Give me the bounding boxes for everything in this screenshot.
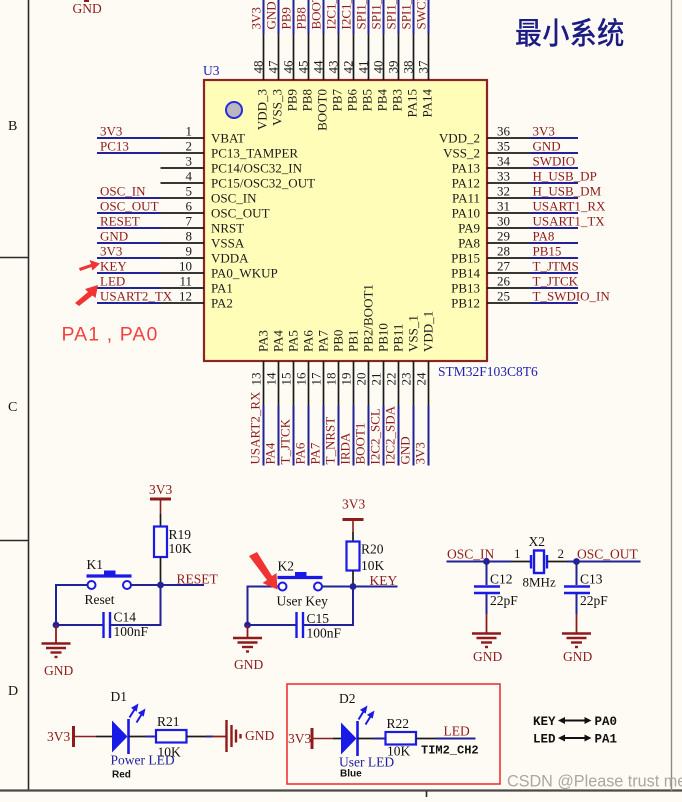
net GND (D1) bbox=[245, 728, 274, 743]
zone letter C bbox=[8, 400, 17, 415]
net GND (C12) bbox=[473, 649, 502, 664]
svg-text:22pF: 22pF bbox=[490, 593, 518, 608]
net label PB8 bbox=[294, 7, 309, 29]
pin 37 (PA14) bbox=[416, 34, 435, 117]
net label I2C1_SCL bbox=[324, 0, 339, 30]
sheet border left bbox=[28, 0, 30, 791]
net label SPI1_MISO bbox=[384, 0, 399, 30]
svg-text:18: 18 bbox=[324, 373, 339, 386]
svg-text:42: 42 bbox=[341, 61, 356, 74]
svg-text:VDD_1: VDD_1 bbox=[421, 311, 436, 352]
svg-text:H_USB_DM: H_USB_DM bbox=[533, 184, 602, 199]
pin 17 (PA7) bbox=[309, 330, 331, 406]
pin 11 (PA1) bbox=[161, 274, 233, 296]
svg-text:PA6: PA6 bbox=[293, 442, 308, 464]
svg-text:PA1: PA1 bbox=[211, 281, 233, 296]
pin 21 (PB10) bbox=[369, 323, 391, 405]
net GND (K1) bbox=[44, 663, 73, 678]
pin 4 (PC15/OSC32_OUT) bbox=[161, 169, 316, 191]
svg-text:VDDA: VDDA bbox=[211, 251, 249, 266]
net label RESET bbox=[177, 572, 219, 587]
wire OSC_OUT to C13 bbox=[576, 562, 578, 586]
svg-text:PB8: PB8 bbox=[294, 7, 309, 29]
wire net T_SWDIO_IN pin 25 bbox=[531, 302, 579, 304]
svg-text:PB12: PB12 bbox=[451, 296, 480, 311]
IC U3 body bbox=[204, 80, 487, 361]
capacitor C13 bbox=[564, 572, 608, 609]
wire D1 to R21 bbox=[129, 736, 157, 738]
net label PA8 bbox=[533, 229, 555, 244]
zone tick B/C bbox=[0, 257, 28, 259]
svg-text:USART1_TX: USART1_TX bbox=[533, 214, 606, 229]
svg-text:LED: LED bbox=[444, 724, 470, 739]
svg-text:PB8: PB8 bbox=[300, 89, 315, 111]
svg-text:1: 1 bbox=[186, 124, 193, 139]
comment Red bbox=[112, 770, 131, 781]
pin 13 (PA3) bbox=[249, 330, 271, 405]
wire net I2C2_SDA pin 22 bbox=[398, 406, 400, 466]
svg-text:K2: K2 bbox=[278, 559, 295, 574]
pin 28 (PB15) bbox=[451, 244, 530, 266]
capacitor C12 bbox=[474, 572, 518, 609]
svg-text:43: 43 bbox=[326, 61, 341, 74]
svg-text:T_JTCK: T_JTCK bbox=[533, 274, 579, 289]
svg-text:U3: U3 bbox=[203, 63, 220, 78]
svg-text:OSC_OUT: OSC_OUT bbox=[211, 206, 270, 221]
svg-text:VSSA: VSSA bbox=[211, 236, 245, 251]
net label PB9 bbox=[279, 7, 294, 29]
svg-text:100nF: 100nF bbox=[307, 626, 342, 641]
wire OSC_OUT bbox=[567, 561, 641, 563]
net label LED bbox=[444, 724, 470, 739]
wire net SPI1_MISO pin 39 bbox=[398, 0, 400, 34]
wire net GND pin 8 bbox=[97, 242, 161, 244]
svg-text:14: 14 bbox=[264, 372, 279, 386]
svg-text:PA7: PA7 bbox=[316, 330, 331, 352]
wire net PA6 pin 16 bbox=[308, 406, 310, 466]
svg-text:PA7: PA7 bbox=[308, 442, 323, 464]
net label OSC_OUT bbox=[577, 547, 639, 562]
svg-text:PA8: PA8 bbox=[533, 229, 555, 244]
sheet border bottom bbox=[0, 789, 682, 791]
net label IRDA bbox=[338, 432, 353, 464]
svg-text:40: 40 bbox=[371, 61, 386, 74]
svg-text:USART2_TX: USART2_TX bbox=[100, 289, 173, 304]
svg-text:SWCLK: SWCLK bbox=[414, 0, 429, 30]
wire 3V3 to D2 bbox=[333, 738, 341, 740]
svg-text:41: 41 bbox=[356, 61, 371, 74]
pin 24 (VDD_1) bbox=[414, 311, 436, 406]
svg-text:GND: GND bbox=[473, 649, 502, 664]
svg-text:VSS_1: VSS_1 bbox=[406, 315, 421, 352]
net label USART1_RX bbox=[533, 199, 607, 214]
wire net RESET bbox=[161, 584, 205, 586]
net label 3V3 bbox=[100, 124, 122, 139]
svg-text:BOOT0: BOOT0 bbox=[315, 89, 330, 131]
svg-text:3V3: 3V3 bbox=[249, 7, 264, 29]
svg-text:PB15: PB15 bbox=[451, 251, 480, 266]
svg-text:IRDA: IRDA bbox=[338, 432, 353, 464]
svg-text:16: 16 bbox=[294, 372, 309, 386]
net label T_JTCK bbox=[533, 274, 579, 289]
svg-text:PB11: PB11 bbox=[391, 324, 406, 352]
svg-text:48: 48 bbox=[251, 61, 266, 74]
wire net BOOT1 pin 20 bbox=[368, 406, 370, 466]
pin 1 (VBAT) bbox=[161, 124, 246, 146]
svg-text:PA11: PA11 bbox=[452, 191, 480, 206]
svg-text:15: 15 bbox=[279, 373, 294, 386]
svg-text:C: C bbox=[8, 400, 17, 415]
svg-text:USART1_RX: USART1_RX bbox=[533, 199, 607, 214]
annotation text PA1 , PA0 bbox=[62, 324, 159, 346]
svg-text:PA13: PA13 bbox=[452, 161, 480, 176]
svg-text:BOOT0: BOOT0 bbox=[309, 0, 324, 30]
svg-text:25: 25 bbox=[497, 289, 510, 304]
resistor R20 bbox=[347, 542, 385, 574]
pin 15 (PA5) bbox=[279, 330, 301, 405]
pin 36 (VDD_2) bbox=[439, 124, 531, 146]
svg-text:R19: R19 bbox=[169, 527, 192, 542]
wire net I2C1_SDA pin 42 bbox=[353, 0, 355, 34]
wire net PB15 pin 28 bbox=[531, 257, 579, 259]
wire net LED pin 11 bbox=[97, 287, 161, 289]
net label BOOT0 bbox=[309, 0, 324, 30]
net label 3V3 bbox=[249, 7, 264, 29]
wire C12 to gnd bbox=[486, 594, 488, 614]
svg-text:PA12: PA12 bbox=[452, 176, 480, 191]
net label PA4 bbox=[263, 442, 278, 464]
svg-text:PA0_WKUP: PA0_WKUP bbox=[211, 266, 278, 281]
pin 5 (OSC_IN) bbox=[161, 184, 258, 206]
net label GND bbox=[264, 1, 279, 29]
svg-text:27: 27 bbox=[497, 259, 511, 274]
sheet border right bbox=[671, 0, 673, 791]
ground symbol C13 bbox=[562, 614, 591, 647]
svg-text:D2: D2 bbox=[339, 691, 356, 706]
wire net GND pin 47 bbox=[278, 0, 280, 34]
svg-text:PB9: PB9 bbox=[285, 89, 300, 111]
net label T_SWDIO_IN bbox=[533, 289, 611, 304]
net label LED bbox=[100, 274, 125, 289]
net label 3V3 bbox=[413, 442, 428, 464]
svg-text:KEY: KEY bbox=[533, 715, 556, 729]
ground symbol K1 bbox=[42, 625, 71, 657]
svg-text:I2C1_SCL: I2C1_SCL bbox=[324, 0, 339, 30]
power 3V3 (K2 pull-up) bbox=[342, 497, 365, 533]
svg-text:32: 32 bbox=[497, 184, 510, 199]
svg-text:PA4: PA4 bbox=[263, 442, 278, 464]
svg-text:34: 34 bbox=[497, 154, 511, 169]
power 3V3 (K1 pull-up) bbox=[149, 482, 172, 514]
svg-text:12: 12 bbox=[179, 289, 192, 304]
wire net KEY pin 10 bbox=[97, 272, 161, 274]
svg-text:OSC_OUT: OSC_OUT bbox=[577, 547, 639, 562]
ground symbol D1 bbox=[212, 720, 241, 752]
net label I2C1_SDA bbox=[339, 0, 354, 30]
svg-text:PC13_TAMPER: PC13_TAMPER bbox=[211, 146, 298, 161]
wire net PC13 pin 2 bbox=[97, 152, 161, 154]
pin 19 (PB1) bbox=[339, 330, 361, 406]
net label T_NRST bbox=[323, 417, 338, 465]
svg-text:D: D bbox=[8, 684, 18, 699]
svg-text:38: 38 bbox=[401, 61, 416, 74]
svg-text:Red: Red bbox=[112, 770, 131, 781]
pin 25 (PB12) bbox=[451, 289, 530, 311]
wire net T_JTCK pin 26 bbox=[531, 287, 579, 289]
net label KEY bbox=[370, 573, 398, 588]
svg-text:9: 9 bbox=[186, 244, 193, 259]
pin 45 (PB8) bbox=[296, 34, 315, 111]
svg-text:T_JTCK: T_JTCK bbox=[278, 418, 293, 464]
svg-text:8MHz: 8MHz bbox=[523, 575, 556, 590]
svg-text:13: 13 bbox=[249, 373, 264, 386]
svg-text:D1: D1 bbox=[111, 689, 128, 704]
wire net USART2_RX pin 13 bbox=[263, 406, 265, 466]
svg-text:GND: GND bbox=[100, 229, 128, 244]
junction node gnd K2 bbox=[244, 622, 251, 629]
svg-text:STM32F103C8T6: STM32F103C8T6 bbox=[438, 364, 538, 379]
net label GND bbox=[100, 229, 128, 244]
net label 3V3 bbox=[100, 244, 122, 259]
svg-text:OSC_IN: OSC_IN bbox=[100, 184, 146, 199]
ground symbol fragment (cut off at top) bbox=[84, 0, 89, 2]
svg-text:PA6: PA6 bbox=[301, 330, 316, 352]
svg-text:VSS_3: VSS_3 bbox=[270, 89, 285, 126]
svg-text:PA0: PA0 bbox=[595, 715, 618, 729]
svg-text:19: 19 bbox=[339, 373, 354, 386]
svg-text:35: 35 bbox=[497, 139, 510, 154]
svg-text:10K: 10K bbox=[169, 541, 193, 556]
U3 pin-1 dot bbox=[226, 102, 242, 118]
wire net T_JTMS pin 27 bbox=[531, 272, 579, 274]
junction node KEY bbox=[350, 583, 357, 590]
wire net SWDIO pin 34 bbox=[531, 167, 579, 169]
pin 12 (PA2) bbox=[161, 289, 233, 311]
svg-text:KEY: KEY bbox=[370, 573, 398, 588]
net label T_JTMS bbox=[533, 259, 579, 274]
wire net H_USB_DP pin 33 bbox=[531, 182, 579, 184]
pin 22 (PB11) bbox=[384, 324, 406, 406]
svg-text:PB5: PB5 bbox=[360, 89, 375, 111]
net GND (C13) bbox=[563, 649, 592, 664]
switch K2 bbox=[277, 559, 329, 609]
wire OSC_IN bbox=[447, 561, 512, 563]
junction node OSC_IN bbox=[483, 558, 490, 565]
pin 42 (PB6) bbox=[341, 34, 360, 111]
net GND (K2) bbox=[234, 657, 263, 672]
svg-text:I2C2_SDA: I2C2_SDA bbox=[383, 405, 398, 464]
pin 3 (PC14/OSC32_IN) bbox=[161, 154, 303, 176]
svg-text:NRST: NRST bbox=[211, 221, 244, 236]
svg-text:24: 24 bbox=[414, 372, 429, 386]
resistor R19 bbox=[154, 527, 192, 558]
crystal X2 bbox=[523, 534, 556, 590]
net label USART1_TX bbox=[533, 214, 606, 229]
svg-text:K1: K1 bbox=[87, 557, 104, 572]
svg-text:I2C2_SCL: I2C2_SCL bbox=[368, 408, 383, 464]
svg-text:37: 37 bbox=[416, 60, 431, 74]
svg-text:H_USB_DP: H_USB_DP bbox=[533, 169, 597, 184]
svg-text:PB14: PB14 bbox=[451, 266, 480, 281]
svg-text:47: 47 bbox=[266, 60, 281, 74]
pin 44 (BOOT0) bbox=[311, 34, 330, 131]
svg-text:VBAT: VBAT bbox=[211, 131, 245, 146]
svg-text:R22: R22 bbox=[387, 716, 410, 731]
svg-text:10K: 10K bbox=[158, 745, 182, 760]
svg-text:User Key: User Key bbox=[277, 594, 329, 609]
wire net KEY bbox=[353, 586, 398, 588]
wire K2 right to node KEY bbox=[322, 586, 353, 588]
svg-text:GND: GND bbox=[245, 728, 274, 743]
svg-text:17: 17 bbox=[309, 372, 324, 386]
net label T_JTCK bbox=[278, 418, 293, 464]
pin 35 (VSS_2) bbox=[443, 139, 530, 161]
svg-text:20: 20 bbox=[354, 373, 369, 386]
wire OSC_IN to C12 bbox=[486, 562, 488, 586]
svg-text:6: 6 bbox=[186, 199, 193, 214]
net label 3V3 bbox=[533, 124, 555, 139]
wire net PA7 pin 17 bbox=[323, 406, 325, 466]
svg-text:39: 39 bbox=[386, 61, 401, 74]
pin 23 (VSS_1) bbox=[399, 315, 421, 405]
svg-text:USART2_RX: USART2_RX bbox=[248, 391, 263, 465]
svg-text:21: 21 bbox=[369, 373, 384, 386]
pin 27 (PB14) bbox=[451, 259, 530, 281]
pin 2 (PC13_TAMPER) bbox=[161, 139, 299, 161]
wire net 3V3 pin 1 bbox=[97, 137, 161, 139]
power 3V3 (D1) bbox=[47, 726, 96, 747]
comment Blue bbox=[340, 769, 362, 780]
net label OSC_IN bbox=[100, 184, 146, 199]
net label H_USB_DM bbox=[533, 184, 602, 199]
net label GND bbox=[533, 139, 561, 154]
wire net 3V3 pin 9 bbox=[97, 257, 161, 259]
wire net BOOT0 pin 44 bbox=[323, 0, 325, 34]
svg-text:RESET: RESET bbox=[177, 572, 219, 587]
net label I2C2_SCL bbox=[368, 408, 383, 464]
wire net LED bbox=[416, 738, 476, 740]
wire net SPI1_SCK pin 40 bbox=[383, 0, 385, 34]
watermark bbox=[507, 773, 682, 791]
wire net OSC_IN pin 5 bbox=[97, 197, 161, 199]
svg-text:3V3: 3V3 bbox=[47, 729, 70, 744]
svg-text:PA3: PA3 bbox=[256, 330, 271, 352]
svg-text:10K: 10K bbox=[361, 558, 385, 573]
svg-text:3V3: 3V3 bbox=[149, 482, 172, 497]
pin 30 (PA9) bbox=[458, 214, 530, 236]
svg-text:VDD_3: VDD_3 bbox=[255, 89, 270, 130]
net label PC13 bbox=[100, 139, 129, 154]
svg-text:22pF: 22pF bbox=[580, 593, 608, 608]
wire net PA4 pin 14 bbox=[278, 406, 280, 466]
svg-text:31: 31 bbox=[497, 199, 510, 214]
comment STM32F103C8T6 bbox=[438, 364, 538, 379]
svg-text:T_SWDIO_IN: T_SWDIO_IN bbox=[533, 289, 611, 304]
pin 18 (PB0) bbox=[324, 330, 346, 406]
wire C15 to KEY column bbox=[303, 587, 353, 626]
wire net I2C1_SCL pin 43 bbox=[338, 0, 340, 34]
wire net RESET pin 7 bbox=[97, 227, 161, 229]
wire D2 to R22 bbox=[358, 738, 386, 740]
svg-text:SPI1_NSS: SPI1_NSS bbox=[354, 0, 369, 30]
zone letter B bbox=[8, 119, 17, 134]
svg-text:PA14: PA14 bbox=[420, 89, 435, 118]
pin 43 (PB7) bbox=[326, 34, 345, 111]
crystal X2 pin 1 bbox=[511, 546, 531, 562]
svg-text:PB4: PB4 bbox=[375, 89, 390, 112]
capacitor C14 bbox=[104, 610, 149, 640]
svg-text:GND: GND bbox=[264, 1, 279, 29]
switch K1 bbox=[85, 557, 132, 607]
net label RESET bbox=[100, 214, 140, 229]
svg-text:PB15: PB15 bbox=[533, 244, 562, 259]
svg-text:PC13: PC13 bbox=[100, 139, 129, 154]
svg-text:PA9: PA9 bbox=[458, 221, 480, 236]
wire 3V3 to D1 bbox=[96, 736, 112, 738]
svg-text:10: 10 bbox=[179, 259, 192, 274]
svg-text:3: 3 bbox=[186, 154, 193, 169]
wire net 3V3 pin 36 bbox=[531, 137, 579, 139]
svg-text:5: 5 bbox=[186, 184, 193, 199]
wire net GND pin 35 bbox=[531, 152, 579, 154]
svg-text:2: 2 bbox=[558, 546, 565, 561]
resistor R22 bbox=[386, 716, 417, 759]
annotation box D2 bbox=[287, 684, 500, 784]
wire 3V3 to R19 bbox=[160, 514, 162, 527]
net label GND bbox=[398, 436, 413, 464]
wire net I2C2_SCL pin 21 bbox=[383, 406, 385, 466]
wire net PB8 pin 45 bbox=[308, 0, 310, 34]
svg-text:R21: R21 bbox=[157, 714, 180, 729]
net label OSC_OUT bbox=[100, 199, 159, 214]
net label PB15 bbox=[533, 244, 562, 259]
svg-text:3V3: 3V3 bbox=[100, 244, 122, 259]
svg-text:GND: GND bbox=[73, 1, 102, 16]
annotation arrow at USART2_TX bbox=[75, 285, 98, 306]
svg-text:30: 30 bbox=[497, 214, 510, 229]
svg-text:3V3: 3V3 bbox=[288, 731, 311, 746]
annotation KEY <-> PA0 bbox=[533, 715, 617, 729]
svg-text:C15: C15 bbox=[307, 611, 330, 626]
svg-text:PB7: PB7 bbox=[330, 89, 345, 112]
svg-text:SPI1_MOSI: SPI1_MOSI bbox=[399, 0, 414, 30]
svg-text:3V3: 3V3 bbox=[533, 124, 555, 139]
pin 14 (PA4) bbox=[264, 330, 286, 406]
net label USART2_RX bbox=[248, 391, 263, 465]
resistor R21 bbox=[156, 714, 187, 760]
svg-text:T_JTMS: T_JTMS bbox=[533, 259, 579, 274]
pin 6 (OSC_OUT) bbox=[161, 199, 270, 221]
svg-text:36: 36 bbox=[497, 124, 511, 139]
svg-text:GND: GND bbox=[533, 139, 561, 154]
svg-text:29: 29 bbox=[497, 229, 510, 244]
svg-text:T_NRST: T_NRST bbox=[323, 417, 338, 465]
svg-text:RESET: RESET bbox=[100, 214, 140, 229]
wire R19 to RESET node bbox=[160, 557, 162, 585]
designator U3 bbox=[203, 63, 220, 78]
ground symbol K2 bbox=[233, 625, 262, 652]
pin 8 (VSSA) bbox=[161, 229, 245, 251]
svg-text:Reset: Reset bbox=[85, 592, 115, 607]
svg-text:3V3: 3V3 bbox=[342, 497, 365, 512]
svg-text:PA8: PA8 bbox=[458, 236, 480, 251]
svg-text:PB0: PB0 bbox=[331, 330, 346, 352]
svg-text:PC15/OSC32_OUT: PC15/OSC32_OUT bbox=[211, 176, 315, 191]
pin 29 (PA8) bbox=[458, 229, 530, 251]
pin 47 (VSS_3) bbox=[266, 34, 285, 126]
svg-text:GND: GND bbox=[563, 649, 592, 664]
svg-text:BOOT1: BOOT1 bbox=[353, 423, 368, 465]
